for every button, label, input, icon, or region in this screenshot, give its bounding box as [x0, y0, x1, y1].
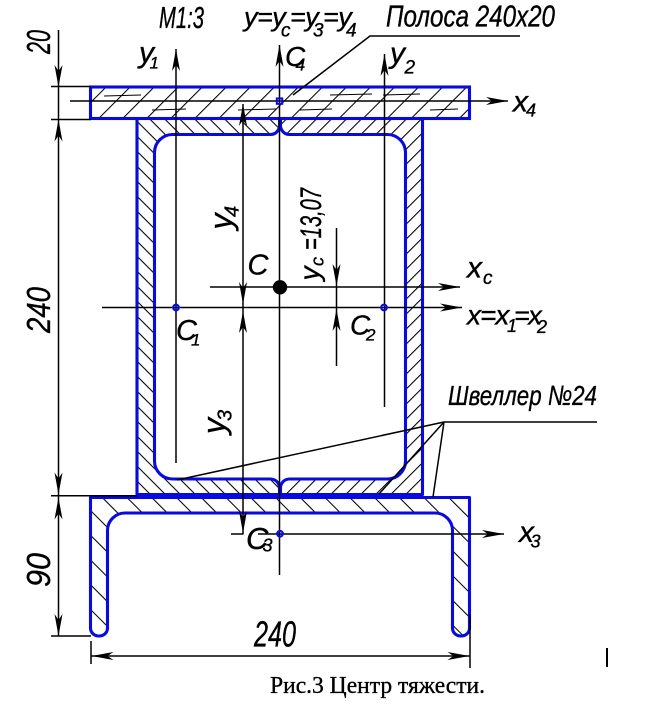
arrow yc down — [333, 264, 341, 286]
axis x=x1=x2 — [102, 307, 462, 309]
svg-text:2: 2 — [365, 326, 376, 345]
node C (centroid) — [273, 280, 287, 294]
arrow y3 bottom down — [239, 511, 247, 533]
svg-text:3: 3 — [215, 410, 237, 421]
svg-text:1: 1 — [150, 54, 159, 73]
arrow yc up — [333, 309, 341, 331]
svg-text:Полоса 240х20: Полоса 240х20 — [386, 0, 555, 34]
arrow xc right — [438, 283, 460, 291]
dimension line y4/y3 — [242, 104, 244, 534]
arrow x4 right — [486, 97, 508, 105]
label x3 — [517, 516, 541, 552]
stray tick bottom right — [606, 648, 608, 667]
arrow dim20 down — [55, 65, 63, 87]
svg-text:4: 4 — [346, 21, 357, 42]
axis y (y=yc=y3=y4) — [279, 45, 281, 575]
svg-text:x: x — [465, 252, 483, 285]
label x4 — [511, 86, 536, 121]
svg-text:C: C — [248, 250, 270, 282]
arrow y4 bottom down — [239, 282, 247, 304]
svg-text:240: 240 — [20, 286, 57, 333]
label x=x1=x2 — [465, 300, 547, 338]
extension line box bottom — [51, 495, 137, 497]
arrow dim90 up — [55, 498, 63, 520]
extension line plate bottom — [51, 119, 91, 121]
svg-text:x=x: x=x — [465, 300, 510, 331]
arrow x right — [440, 304, 462, 312]
arrow y2 up — [381, 54, 389, 76]
label y4 rotated — [203, 206, 244, 232]
svg-text:2: 2 — [404, 58, 416, 79]
leader Швеллер to right channel — [379, 422, 444, 494]
leader Полоса — [293, 36, 520, 95]
node C3 — [277, 531, 283, 537]
svg-text:y: y — [294, 265, 325, 283]
dimension line yc — [336, 228, 338, 366]
label C1 — [176, 315, 200, 349]
channel right (Швеллер №24) — [280, 119, 422, 495]
svg-text:Швеллер №24: Швеллер №24 — [448, 380, 597, 411]
arrow dim90 down — [55, 614, 63, 636]
arrow y1 up — [172, 49, 180, 71]
svg-text:М1:3: М1:3 — [159, 0, 204, 35]
svg-text:3: 3 — [531, 532, 541, 552]
svg-text:c: c — [308, 257, 328, 266]
extension line bottom right — [469, 614, 471, 668]
svg-text:20: 20 — [20, 30, 57, 55]
leader Швеллер to bottom channel — [433, 422, 444, 497]
label xc — [465, 252, 493, 290]
axis y1 — [175, 49, 177, 463]
svg-text:Рис.3 Центр тяжести.: Рис.3 Центр тяжести. — [270, 673, 485, 699]
label y2 — [388, 37, 416, 79]
axis xc — [210, 286, 460, 288]
channel bottom (Швеллер №24) — [91, 498, 470, 637]
axis x4 — [70, 100, 508, 102]
svg-text:4: 4 — [222, 206, 244, 217]
axis x3 — [231, 533, 244, 535]
svg-text:3: 3 — [263, 536, 273, 556]
svg-text:2: 2 — [536, 317, 547, 337]
node C1 — [173, 305, 179, 311]
plate Полоса 240x20 — [91, 87, 470, 119]
arrow dim240 up — [55, 120, 63, 142]
svg-text:240: 240 — [253, 614, 296, 655]
svg-text:=13,07: =13,07 — [295, 187, 328, 250]
svg-text:c: c — [483, 268, 493, 289]
node C2 — [381, 305, 387, 311]
arrow y4 top up — [239, 104, 247, 126]
channel left (Швеллер №24) — [137, 119, 280, 495]
label y=yc=y3=y4 — [242, 2, 357, 42]
dim line bottom 240 — [92, 655, 470, 657]
arrow bottom240 left — [92, 652, 114, 660]
label y3 rotated — [196, 410, 237, 436]
svg-text:90: 90 — [20, 552, 57, 587]
arrowheads — [55, 45, 509, 660]
axis y2 — [384, 54, 386, 407]
label y1 — [137, 36, 159, 72]
extension line bottom left — [90, 641, 92, 664]
arrow x3 right — [482, 530, 504, 538]
arrow dim240 down — [55, 473, 63, 495]
label C4 top — [285, 41, 306, 75]
arrow y3 top up — [239, 311, 247, 333]
svg-text:4: 4 — [526, 101, 536, 121]
label yc=13,07 rotated — [294, 187, 328, 282]
plate artifact dashes — [104, 94, 458, 110]
label C2 — [350, 310, 376, 345]
label C3 — [246, 521, 273, 556]
extension line plate top — [51, 86, 91, 88]
node C4 — [277, 98, 282, 103]
svg-text:1: 1 — [191, 330, 200, 349]
leader Швеллер underline — [444, 421, 597, 423]
arrow y up — [276, 45, 284, 67]
leader Швеллер to left channel — [177, 422, 444, 480]
svg-text:4: 4 — [296, 55, 306, 75]
extension line channel bottom — [51, 635, 91, 637]
arrow bottom240 right — [448, 652, 470, 660]
dim line left vertical — [58, 30, 60, 636]
